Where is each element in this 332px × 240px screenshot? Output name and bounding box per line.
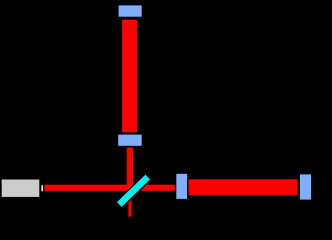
beam: dark-port output below beamsplitter (thin red vertical)	[128, 194, 131, 217]
laser aperture nub	[41, 185, 43, 191]
mirror ETM-X (right end mirror)	[299, 174, 312, 201]
mirror ITM-Y (input mirror, vertical arm)	[118, 134, 143, 147]
beamsplitter (cyan 45-degree plate)	[116, 174, 151, 208]
beam: beamsplitter to ITM-Y (thin red vertical)	[127, 148, 133, 193]
mirror ETM-Y (top end mirror)	[118, 5, 142, 18]
beam: laser to beamsplitter to ITM-X (thin red horizontal)	[45, 185, 176, 191]
beam: Y-arm cavity buildup (thick red vertical)	[122, 20, 137, 133]
laser source (gray box)	[2, 180, 40, 197]
beam: X-arm cavity buildup (thick red horizontal)	[188, 179, 297, 195]
mirror ITM-X (input mirror, horizontal arm)	[176, 173, 188, 200]
